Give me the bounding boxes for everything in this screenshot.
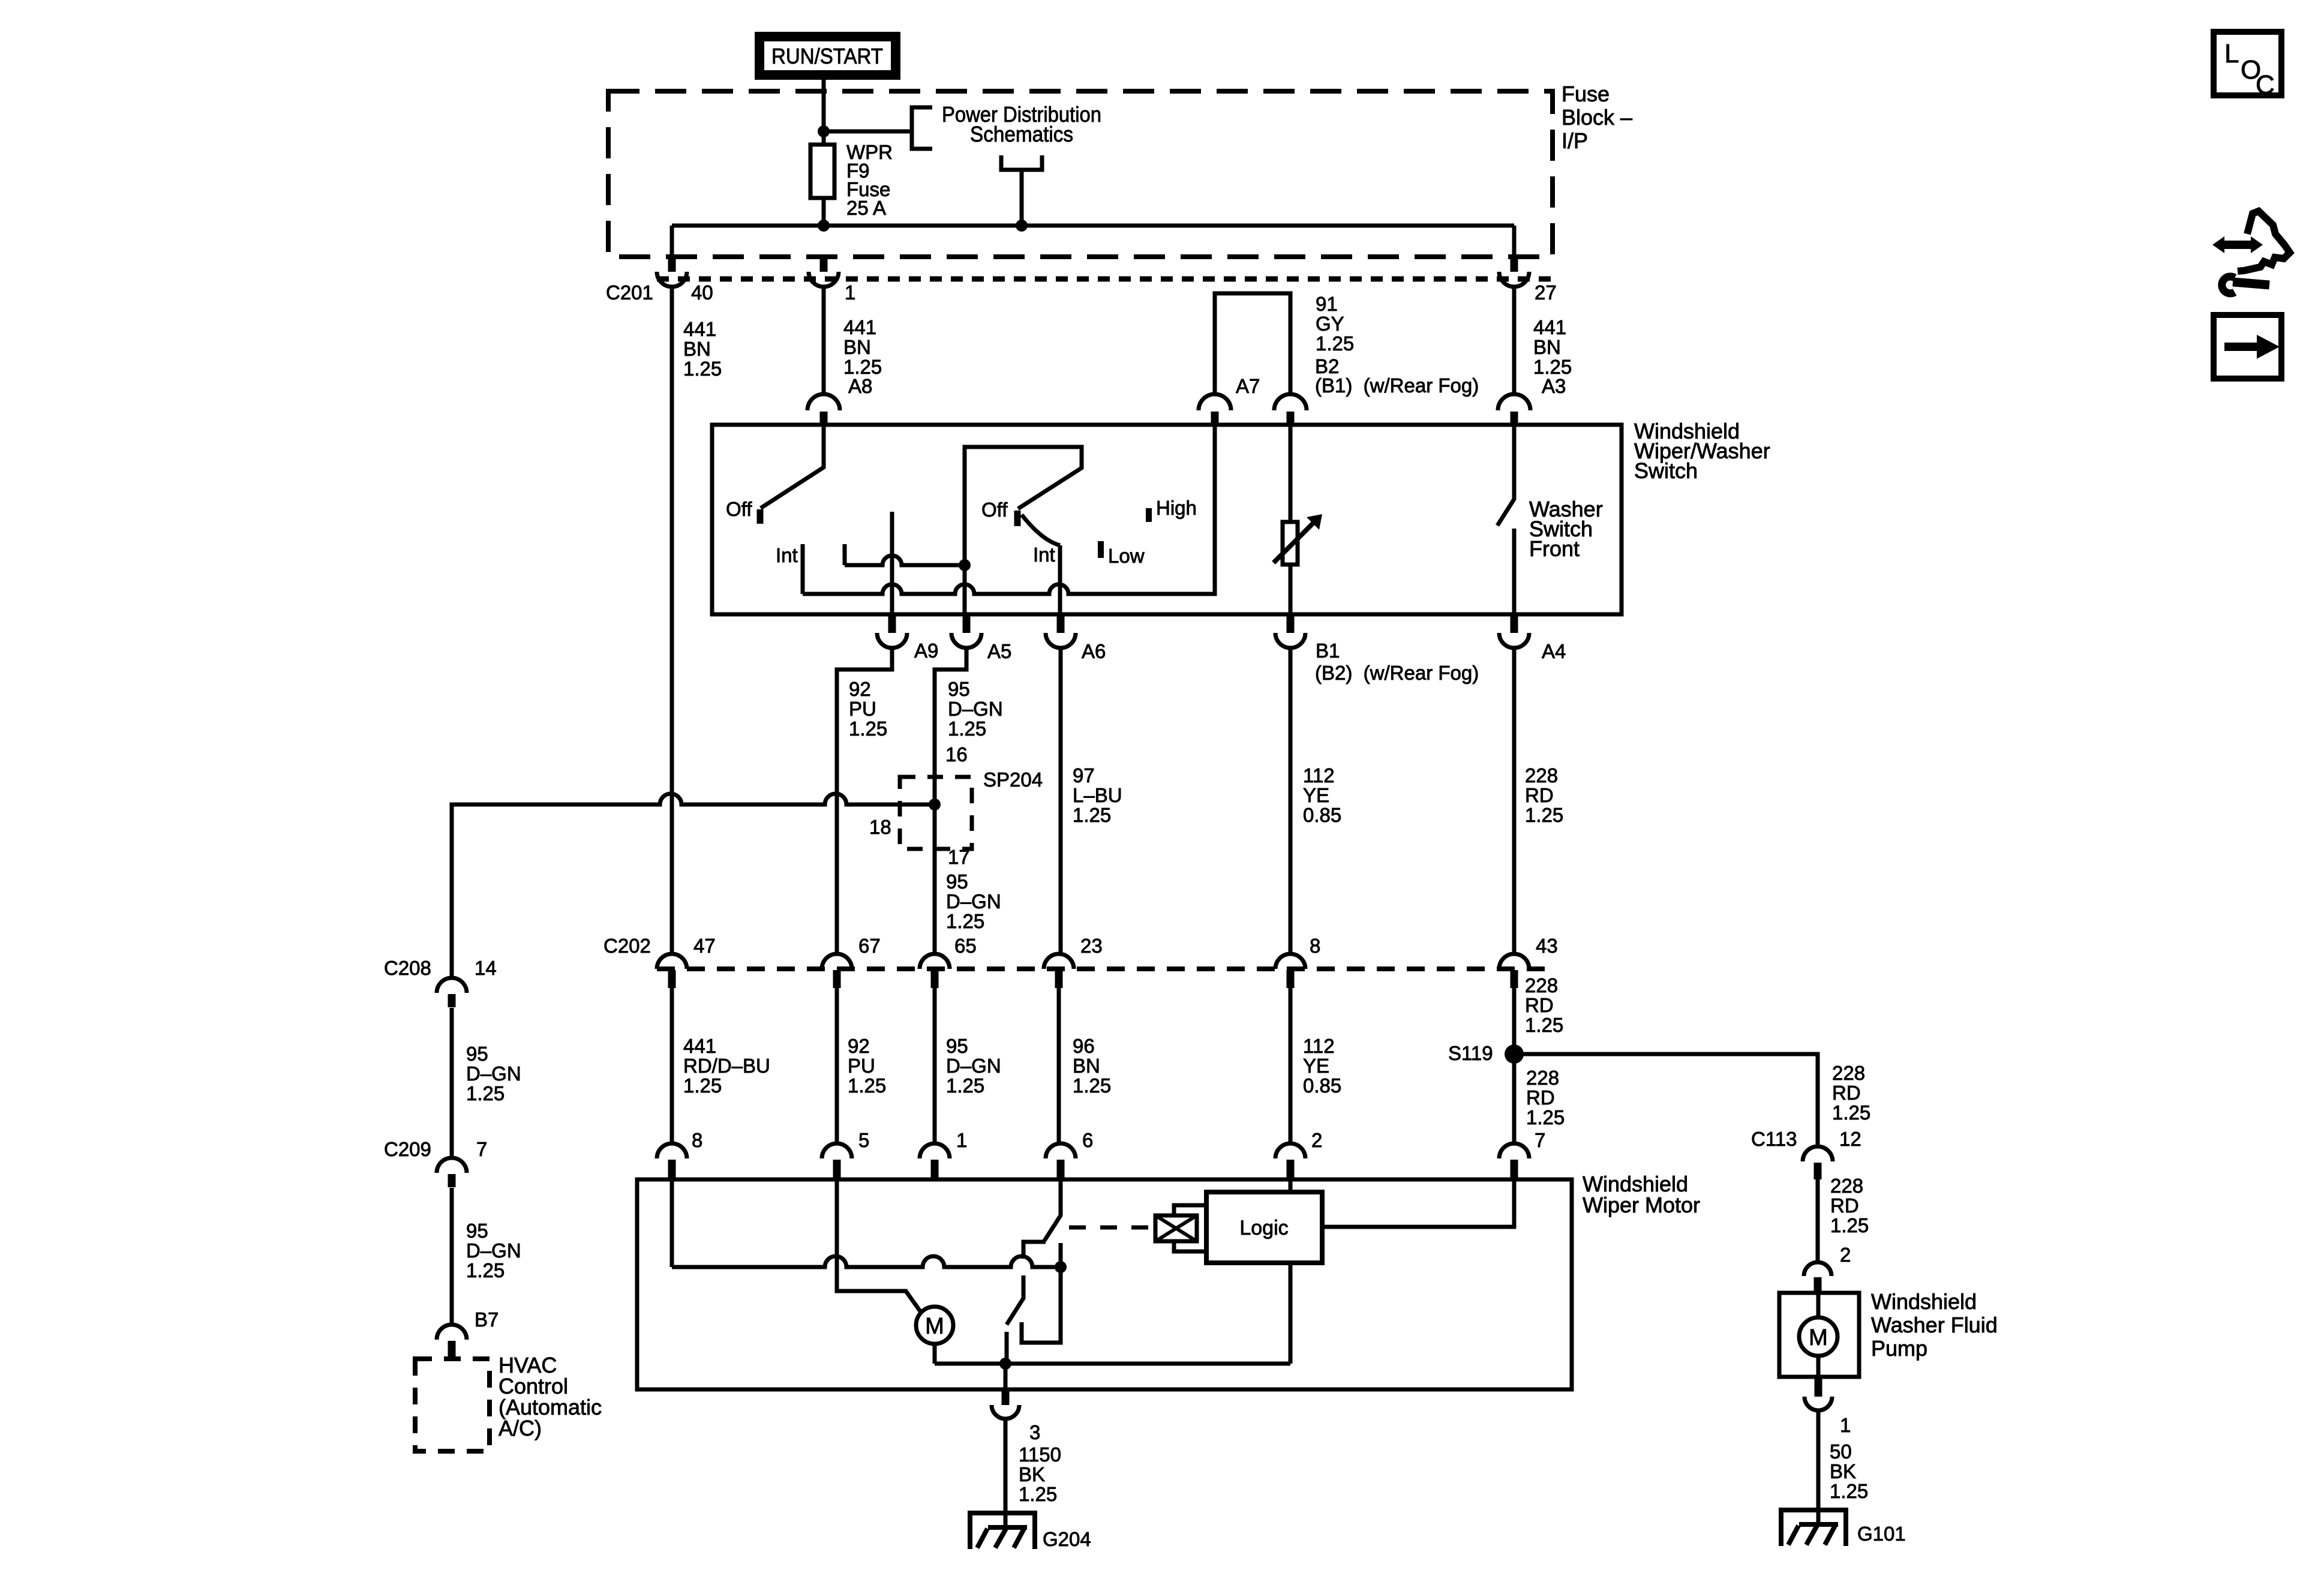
wire ground drop to pin 3 [1004, 1364, 1008, 1389]
label pin 2 washer pump [1840, 1244, 1851, 1266]
label wire 112 YE 0.85 upper [1303, 764, 1341, 826]
svg-text:C209: C209 [384, 1138, 431, 1160]
windshield wiper motor box [637, 1179, 1572, 1389]
svg-text:1.25: 1.25 [1073, 804, 1111, 826]
label pin 23 C202 [1080, 935, 1103, 957]
logic relay coil [1155, 1215, 1197, 1241]
svg-text:D–GN: D–GN [946, 1055, 1001, 1077]
connector A4 below switch [1499, 616, 1529, 648]
svg-text:L–BU: L–BU [1073, 784, 1122, 806]
svg-text:BN: BN [683, 338, 711, 360]
label Low [1108, 545, 1145, 567]
wire pump M to bottom [1816, 1356, 1821, 1377]
wire 91 GY loop A7 to B2 [1215, 293, 1290, 394]
label pin 1 washer pump [1840, 1414, 1851, 1436]
ground G204 [968, 1511, 1037, 1549]
label wire 92 PU 1.25 upper [849, 678, 887, 740]
label A4 [1542, 640, 1566, 662]
label Windshield Wiper Motor [1583, 1172, 1700, 1217]
label S119 [1448, 1042, 1493, 1064]
wire logic right to pin 7 [1322, 1179, 1514, 1227]
contact High [1146, 508, 1152, 522]
label C208 [384, 957, 431, 979]
wire pin 2 to logic [1289, 1179, 1293, 1192]
label pin 67 C202 [858, 935, 881, 957]
wire dimmer lower to B1 [1289, 565, 1293, 614]
contact Low [1098, 541, 1104, 558]
connector row C202 dashed line [657, 966, 1551, 971]
label C201 [606, 281, 653, 304]
wire 95 D-GN to motor pin 1 [933, 988, 937, 1143]
svg-text:1.25: 1.25 [1526, 1106, 1565, 1128]
svg-text:A5: A5 [987, 640, 1011, 662]
label wire 96 BN 1.25 [1073, 1035, 1111, 1097]
wire Schematics bracket to bus [1020, 170, 1024, 226]
wire A5 jog to column 65 via SP204 [935, 648, 966, 954]
connector C202 pin 65 [920, 954, 950, 988]
label WPR F9 Fuse 25 A [846, 141, 893, 219]
svg-text:112: 112 [1303, 764, 1335, 786]
label wire 50 BK 1.25 [1830, 1440, 1868, 1502]
svg-text:(B1) (w/Rear Fog): (B1) (w/Rear Fog) [1315, 374, 1479, 397]
node A5 run junction [959, 559, 971, 571]
curve switch2 blade tip to Int contact [1022, 515, 1060, 545]
fuse block I/P dashed border [608, 91, 1553, 257]
label Fuse Block - I/P [1562, 82, 1632, 153]
label A6 [1082, 640, 1106, 662]
svg-text:1.25: 1.25 [1073, 1074, 1111, 1097]
svg-text:228: 228 [1832, 1062, 1865, 1084]
svg-text:BK: BK [1830, 1460, 1856, 1482]
svg-text:17: 17 [948, 846, 970, 868]
label C209 [384, 1138, 431, 1160]
label Washer Switch Front [1529, 497, 1603, 561]
svg-text:B7: B7 [475, 1308, 499, 1331]
svg-text:97: 97 [1073, 764, 1095, 786]
icon LOC box [2214, 32, 2281, 100]
label wire 97 L-BU 1.25 [1073, 764, 1122, 826]
svg-text:228: 228 [1830, 1175, 1863, 1197]
wire motor internal run from pin 8 [672, 1256, 1061, 1267]
label wire 228 RD 1.25 below C113 [1830, 1175, 1869, 1236]
svg-text:D–GN: D–GN [948, 698, 1003, 720]
label (B2) (w/Rear Fog) [1315, 662, 1479, 684]
svg-text:High: High [1156, 497, 1197, 519]
switch 1 blade from A8 [761, 425, 824, 508]
svg-text:47: 47 [693, 935, 716, 957]
svg-text:YE: YE [1303, 784, 1329, 806]
svg-text:1: 1 [956, 1129, 967, 1151]
wire A5 loop and switch2 blade [965, 447, 1082, 565]
svg-text:A3: A3 [1542, 375, 1566, 397]
svg-text:67: 67 [858, 935, 881, 957]
svg-text:228: 228 [1526, 1067, 1559, 1089]
svg-text:1: 1 [845, 281, 855, 304]
svg-text:M: M [925, 1314, 944, 1339]
label motor pin 1 [956, 1129, 967, 1151]
wire B2 dimmer upper [1289, 425, 1293, 522]
washer pump M circle [1799, 1317, 1837, 1356]
svg-text:95: 95 [948, 678, 970, 700]
label motor pin 5 [858, 1129, 869, 1151]
svg-text:1150: 1150 [1019, 1443, 1061, 1466]
label SP204 [983, 769, 1043, 791]
svg-text:D–GN: D–GN [946, 890, 1001, 912]
fuse WPR F9 25A [810, 145, 834, 198]
svg-text:C113: C113 [1751, 1128, 1797, 1150]
wire contact through hop to blade 2 [1007, 1275, 1023, 1325]
off-page connector bracket under Schematics [1001, 155, 1042, 170]
svg-text:0.85: 0.85 [1303, 1074, 1341, 1097]
label Int switch1 [776, 544, 798, 566]
label wire 228 RD 1.25 upper [1525, 764, 1563, 826]
svg-text:D–GN: D–GN [466, 1062, 521, 1085]
svg-text:95: 95 [466, 1043, 488, 1065]
svg-text:A/C): A/C) [499, 1416, 542, 1440]
label wire 95 D-GN 1.25 lower [946, 1035, 1001, 1097]
svg-text:M: M [1809, 1325, 1828, 1350]
connector row C201 dotted line [657, 277, 1551, 282]
svg-text:A7: A7 [1236, 375, 1260, 397]
svg-text:1.25: 1.25 [466, 1259, 505, 1281]
wire pump top to M [1816, 1293, 1821, 1317]
label wire 95 D-GN 1.25 left upper [466, 1043, 521, 1104]
svg-text:50: 50 [1830, 1440, 1852, 1463]
svg-text:I/P: I/P [1562, 128, 1588, 153]
connector C202 pin 8 [1275, 954, 1305, 988]
label pin 47 C202 [693, 935, 716, 957]
svg-text:RD: RD [1832, 1082, 1861, 1104]
svg-text:1.25: 1.25 [1019, 1483, 1057, 1505]
contact Off switch2 [1014, 511, 1021, 526]
svg-text:23: 23 [1080, 935, 1103, 957]
contact Off switch1 [757, 509, 764, 524]
svg-text:Washer Fluid: Washer Fluid [1871, 1313, 1998, 1337]
svg-text:92: 92 [849, 678, 871, 700]
label A9 [914, 640, 938, 662]
wire bus left drop to C201 pin 40 [670, 226, 674, 255]
label 18 [869, 816, 891, 838]
connector washer pump pin 2 [1804, 1262, 1831, 1293]
label wire 112 YE 0.85 lower [1303, 1035, 1341, 1097]
off-page reference bracket Power Distribution [912, 107, 932, 149]
svg-text:0.85: 0.85 [1303, 804, 1341, 826]
node SP204 splice [929, 798, 941, 810]
label Power Distribution Schematics [942, 102, 1101, 146]
svg-text:BN: BN [1533, 336, 1561, 358]
contact Int switch1 with wire [801, 544, 805, 594]
svg-text:1.25: 1.25 [946, 1074, 984, 1097]
svg-text:A4: A4 [1542, 640, 1566, 662]
wire S119 branch to C113 [1514, 1054, 1818, 1146]
svg-text:1.25: 1.25 [948, 718, 986, 740]
coil bracket top [1174, 1205, 1206, 1214]
svg-text:1.25: 1.25 [466, 1082, 505, 1104]
HVAC control dashed box [415, 1359, 490, 1451]
svg-text:3: 3 [1029, 1421, 1040, 1443]
label B7 [475, 1308, 499, 1331]
connector motor pin 7 [1499, 1143, 1529, 1178]
label Off switch2 [981, 499, 1008, 521]
svg-text:7: 7 [476, 1138, 487, 1160]
label wire 95 D-GN 1.25 upper [948, 678, 1003, 740]
wire pin 8 inside motor [670, 1179, 674, 1267]
label C113 [1751, 1128, 1797, 1150]
svg-text:40: 40 [691, 281, 713, 304]
label 16 [945, 743, 968, 766]
svg-text:RD: RD [1830, 1194, 1859, 1217]
svg-text:18: 18 [869, 816, 891, 838]
wire 1150 BK to G204 [1004, 1419, 1008, 1526]
wire pin 5 to motor M [837, 1179, 922, 1314]
contact park stub to ground run [1005, 1332, 1009, 1364]
svg-text:2: 2 [1311, 1129, 1322, 1151]
svg-text:1: 1 [1840, 1414, 1851, 1436]
washer switch contact to A4 [1512, 529, 1517, 614]
wire A9 contact stem [890, 512, 894, 614]
connector B2 into switch [1274, 394, 1307, 425]
svg-text:1.25: 1.25 [1316, 332, 1354, 355]
wire C113 to washer pump [1816, 1179, 1820, 1261]
svg-text:C: C [2256, 70, 2275, 100]
label A5 [987, 640, 1011, 662]
svg-text:S119: S119 [1448, 1042, 1493, 1064]
connector A7 into switch [1199, 394, 1231, 425]
wire C209 to B7 [450, 1188, 454, 1325]
label pin 1 [845, 281, 855, 304]
label wire 95 D-GN 1.25 left lower [466, 1220, 521, 1281]
svg-text:Int: Int [1033, 544, 1055, 566]
svg-text:Off: Off [726, 498, 752, 520]
label pin 3 [1029, 1421, 1040, 1443]
wire 441 BN pin27 to A3 [1512, 287, 1517, 394]
svg-text:C201: C201 [606, 281, 653, 304]
label (B1) (w/Rear Fog) [1315, 374, 1479, 397]
connector C209 pin 7 [437, 1158, 467, 1187]
connector C201 pin 1 [809, 255, 839, 287]
svg-text:2: 2 [1840, 1244, 1851, 1266]
svg-text:1.25: 1.25 [1830, 1214, 1869, 1236]
icon forward arrow box [2214, 315, 2281, 379]
connector C208 pin 14 [437, 978, 467, 1007]
wire 441 BN pin40 to C202 [670, 287, 674, 954]
connector C202 pin 23 [1044, 954, 1074, 988]
svg-text:27: 27 [1535, 281, 1557, 304]
svg-text:95: 95 [946, 1035, 968, 1057]
wire RUN/START to fuse [822, 80, 826, 145]
svg-text:Front: Front [1529, 536, 1580, 561]
svg-text:C202: C202 [603, 935, 651, 957]
wire A4 to column 43 [1512, 648, 1517, 954]
svg-text:1.25: 1.25 [848, 1074, 886, 1097]
svg-text:1.25: 1.25 [1832, 1101, 1870, 1124]
svg-text:PU: PU [849, 698, 876, 720]
contact bracket to A5 run [843, 544, 847, 565]
label pin 40 [691, 281, 713, 304]
connector motor pin 3 [992, 1391, 1019, 1419]
connector A6 below switch [1046, 616, 1076, 648]
svg-text:1.25: 1.25 [1525, 1014, 1563, 1036]
label Windshield Wiper/Washer Switch [1634, 419, 1770, 483]
svg-text:91: 91 [1316, 293, 1338, 315]
label pin 14 [475, 957, 497, 979]
svg-text:Schematics: Schematics [970, 122, 1073, 146]
svg-text:C208: C208 [384, 957, 431, 979]
label motor pin 6 [1082, 1129, 1093, 1151]
connector A8 into switch [807, 394, 840, 425]
label motor pin 7 [1535, 1129, 1545, 1151]
svg-text:65: 65 [954, 935, 977, 957]
label pin 8 C202 [1310, 935, 1320, 957]
connector C201 pin 27 [1499, 255, 1529, 287]
svg-text:1.25: 1.25 [683, 358, 722, 380]
wire fuse to bus [822, 198, 826, 226]
svg-text:1.25: 1.25 [849, 718, 887, 740]
svg-text:16: 16 [945, 743, 968, 766]
svg-text:441: 441 [1533, 316, 1566, 338]
label 17 [948, 846, 970, 868]
label High [1156, 497, 1197, 519]
svg-text:Pump: Pump [1871, 1336, 1927, 1361]
connector B7 into HVAC [437, 1325, 467, 1358]
node run end junction [1055, 1261, 1067, 1273]
wire 228 RD column 43 to motor pin 7 [1512, 988, 1517, 1143]
wire logic bottom to ground run [1289, 1263, 1293, 1364]
label pin 65 C202 [954, 935, 977, 957]
svg-text:RD/D–BU: RD/D–BU [683, 1055, 770, 1077]
svg-text:441: 441 [843, 316, 876, 338]
label C202 [603, 935, 651, 957]
label pin 43 C202 [1536, 935, 1558, 957]
label wire 441 RD/D-BU 1.25 [683, 1035, 770, 1097]
svg-text:A9: A9 [914, 640, 938, 662]
svg-text:92: 92 [848, 1035, 870, 1057]
label A8 [848, 375, 872, 397]
svg-text:228: 228 [1525, 974, 1558, 996]
svg-text:RUN/START: RUN/START [771, 44, 883, 68]
mechanical dashed link to logic coil [1069, 1226, 1155, 1230]
svg-text:7: 7 [1535, 1129, 1545, 1151]
wire pin 6 park switch blade 1 [1044, 1179, 1061, 1241]
svg-text:RD: RD [1525, 994, 1554, 1016]
label wire 441 BN 1.25 center [843, 316, 882, 378]
label Int switch2 [1033, 544, 1055, 566]
node splice S119 [1505, 1044, 1524, 1064]
wire switch1 common run [803, 425, 1215, 594]
svg-text:95: 95 [466, 1220, 488, 1242]
label wire 91 GY 1.25 [1316, 293, 1354, 355]
wire M to ground run [933, 1344, 937, 1364]
wire upper run to A5 node [845, 556, 965, 565]
svg-text:RD: RD [1526, 1086, 1555, 1109]
label B1 [1316, 640, 1340, 662]
connector C202 pin 47 [657, 954, 687, 988]
label motor pin 2 [1311, 1129, 1322, 1151]
svg-text:8: 8 [1310, 935, 1320, 957]
wire Int contact to A6 [1058, 545, 1062, 614]
wire C208 to C209 [450, 1008, 454, 1158]
connector C202 pin 43 [1499, 954, 1529, 988]
label wire 228 RD 1.25 right of C113 wire [1832, 1062, 1870, 1124]
wire A9 jog to column 67 [837, 648, 892, 954]
svg-text:Off: Off [981, 499, 1008, 521]
svg-text:A8: A8 [848, 375, 872, 397]
washer switch blade [1497, 425, 1514, 526]
connector A9 below switch [877, 616, 907, 648]
svg-text:SP204: SP204 [983, 769, 1043, 791]
label wire 92 PU 1.25 lower [848, 1035, 886, 1097]
svg-text:D–GN: D–GN [466, 1239, 521, 1262]
svg-text:1.25: 1.25 [1525, 804, 1563, 826]
svg-text:Low: Low [1108, 545, 1145, 567]
svg-text:43: 43 [1536, 935, 1558, 957]
label wire 441 BN 1.25 right [1533, 316, 1572, 378]
svg-text:Windshield: Windshield [1871, 1289, 1977, 1314]
label A3 [1542, 375, 1566, 397]
wire 50 BK to G101 [1816, 1410, 1821, 1523]
connector C201 pin 40 [657, 255, 687, 287]
node ground run junction [999, 1358, 1011, 1370]
connector motor pin 6 [1046, 1143, 1076, 1178]
label Off switch1 [726, 498, 752, 520]
svg-text:1.25: 1.25 [683, 1074, 722, 1097]
label wire 1150 BK 1.25 [1019, 1443, 1061, 1505]
svg-text:95: 95 [946, 870, 968, 893]
svg-text:B1: B1 [1316, 640, 1340, 662]
icon harness routing symbol [2212, 211, 2290, 293]
svg-text:BK: BK [1019, 1463, 1045, 1485]
svg-text:Fuse: Fuse [1562, 82, 1610, 106]
svg-text:Int: Int [776, 544, 798, 566]
windshield washer fluid pump box [1779, 1293, 1859, 1377]
node bus at schematics branch [1016, 220, 1028, 232]
svg-text:1.25: 1.25 [946, 910, 984, 932]
wire A6 to column 23 [1059, 648, 1063, 954]
variable resistor arrow [1274, 514, 1322, 563]
svg-text:L: L [2224, 39, 2239, 68]
svg-text:6: 6 [1082, 1129, 1093, 1151]
label wire 441 BN 1.25 left [683, 318, 722, 380]
svg-text:8: 8 [692, 1129, 702, 1151]
connector C113 pin 12 [1803, 1146, 1833, 1179]
svg-text:228: 228 [1525, 764, 1558, 786]
connector washer pump pin 1 [1804, 1379, 1832, 1410]
connector B1 below switch [1275, 616, 1305, 648]
svg-text:Wiper Motor: Wiper Motor [1583, 1193, 1700, 1217]
svg-text:441: 441 [683, 318, 716, 340]
svg-text:BN: BN [843, 336, 871, 358]
svg-text:A6: A6 [1082, 640, 1106, 662]
label Windshield Washer Fluid Pump [1871, 1289, 1998, 1361]
label G101 [1857, 1523, 1906, 1545]
svg-text:Block –: Block – [1562, 105, 1632, 130]
windshield wiper/washer switch box [712, 425, 1622, 614]
connector A3 into switch [1498, 394, 1530, 425]
svg-text:112: 112 [1303, 1035, 1335, 1057]
label A7 [1236, 375, 1260, 397]
svg-text:G204: G204 [1043, 1528, 1091, 1550]
svg-text:12: 12 [1839, 1128, 1861, 1150]
svg-text:Switch: Switch [1634, 458, 1698, 483]
wire 96 BN to motor pin 6 [1057, 988, 1061, 1143]
connector A5 below switch [951, 616, 981, 648]
power feed RUN/START box [759, 37, 896, 75]
wire 95 D-GN branch to HVAC [452, 794, 935, 978]
svg-text:(B2) (w/Rear Fog): (B2) (w/Rear Fog) [1315, 662, 1479, 684]
label Logic [1239, 1217, 1288, 1239]
label pin 7 C209 [476, 1138, 487, 1160]
svg-text:14: 14 [475, 957, 497, 979]
